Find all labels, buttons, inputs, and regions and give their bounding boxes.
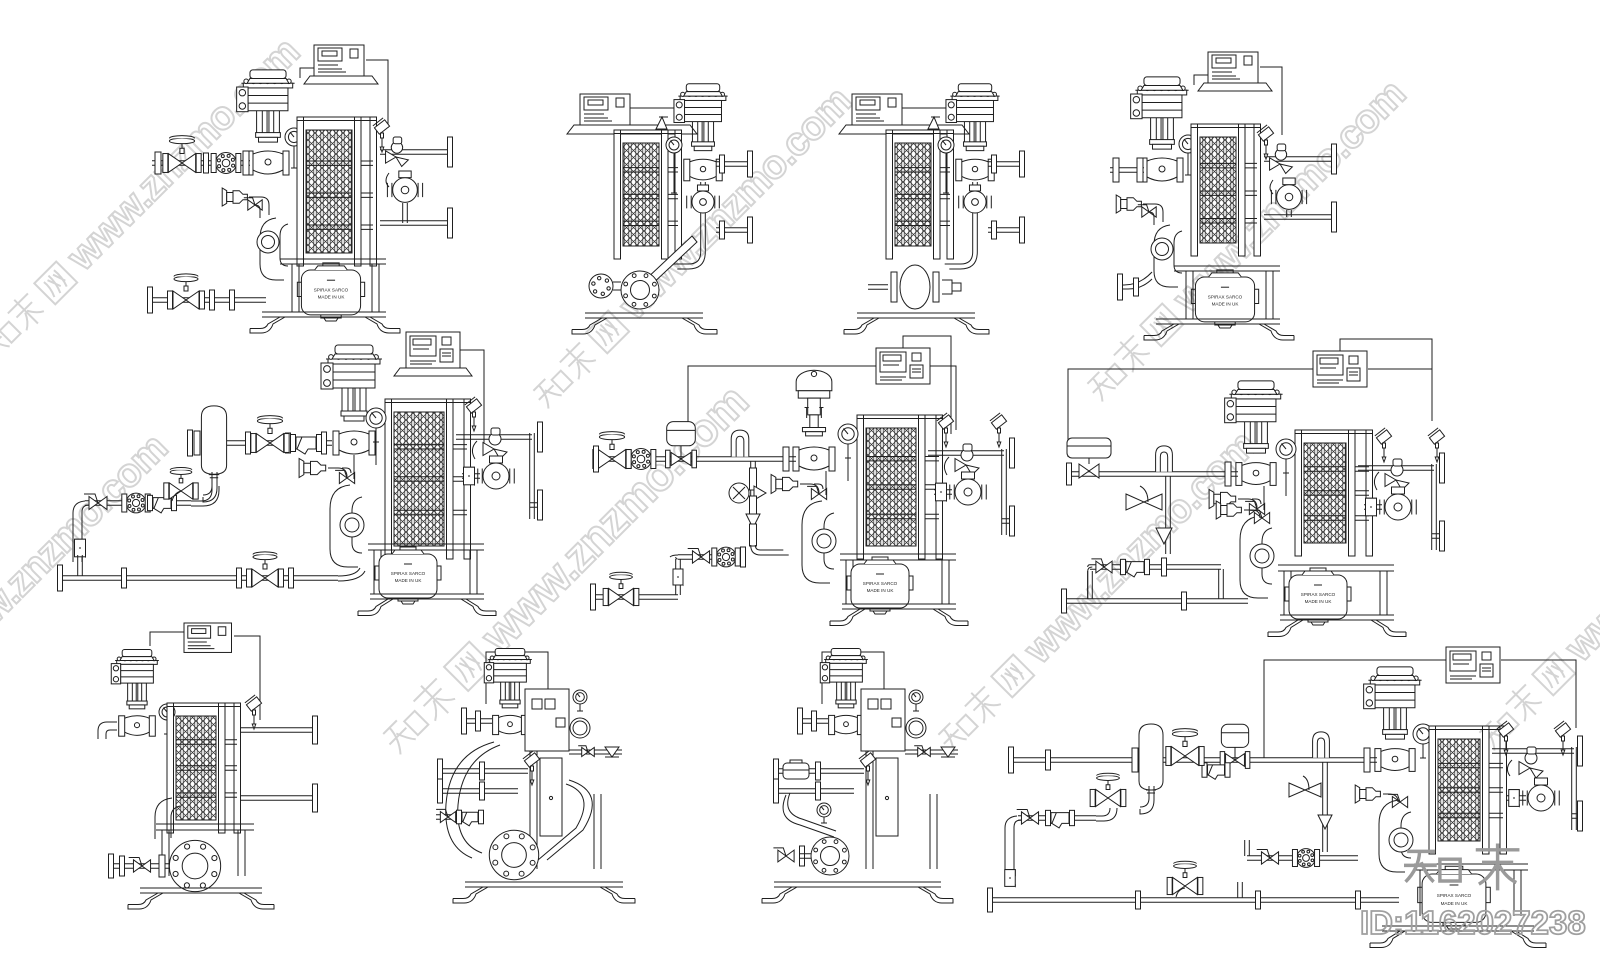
pressure gauge xyxy=(666,137,682,153)
pressure gauge xyxy=(159,704,175,720)
signal wire frame xyxy=(822,652,884,704)
branch strainer xyxy=(153,498,171,509)
flow orifice xyxy=(216,153,237,174)
plate heat exchanger xyxy=(895,143,931,246)
right riser pipe xyxy=(530,433,535,519)
base feet xyxy=(140,888,262,893)
bottom branch pipe xyxy=(1090,565,1221,570)
circulator pump xyxy=(955,479,981,505)
znzmo logo large xyxy=(1404,844,1519,891)
control panel xyxy=(876,348,930,384)
inlet pipe xyxy=(464,719,492,724)
plate heat exchanger xyxy=(623,143,659,246)
relief fittings right xyxy=(1355,785,1360,803)
motorized valve on main xyxy=(1226,754,1235,767)
main pipe run xyxy=(598,457,796,462)
control valve xyxy=(115,659,159,661)
circulation pump xyxy=(393,178,418,203)
gear pump xyxy=(169,840,220,891)
right upper pipe xyxy=(1492,749,1574,754)
signal wiring loop xyxy=(1264,660,1576,758)
upper outlet pipe xyxy=(380,150,450,155)
pump frame xyxy=(1414,864,1528,870)
right riser pipe xyxy=(1432,464,1437,550)
end-suction pump oval xyxy=(900,265,930,309)
main pipe run xyxy=(1011,758,1377,763)
base feet xyxy=(585,313,703,318)
control panel xyxy=(184,623,232,652)
temperature sensor A xyxy=(1497,721,1514,737)
sight ring xyxy=(1389,828,1413,852)
main pipe run xyxy=(1069,472,1238,477)
temperature sensor B xyxy=(1428,428,1445,444)
plate heat exchanger xyxy=(1200,137,1236,243)
condensate elbow xyxy=(155,798,180,839)
control valve xyxy=(488,658,532,660)
base plate xyxy=(262,312,386,317)
panel support bracket xyxy=(304,76,378,84)
control valve body xyxy=(962,159,989,180)
hot side elbow down xyxy=(1379,800,1411,872)
branch meter xyxy=(783,760,809,779)
base feet xyxy=(1144,324,1179,340)
branch pipes xyxy=(776,769,864,774)
bottom globe valve xyxy=(1173,877,1185,894)
watermark text www.znzmo.com xyxy=(1077,72,1413,408)
watermark text www.znzmo.com xyxy=(1469,421,1600,757)
signal wiring loop xyxy=(1068,339,1432,457)
base feet xyxy=(1382,926,1534,931)
panel wires xyxy=(150,632,260,720)
control valve xyxy=(824,658,868,660)
right stub pipes xyxy=(716,162,748,167)
sight ring xyxy=(812,529,836,553)
bottom return pipe xyxy=(150,298,266,303)
circulator pump xyxy=(1385,494,1411,520)
condensate pump xyxy=(301,270,360,315)
condensate pump xyxy=(1289,575,1347,619)
bottom globe valve xyxy=(173,291,186,309)
plate heat exchanger xyxy=(1304,443,1346,543)
temperature sensor A xyxy=(1375,428,1392,444)
control panel xyxy=(1446,647,1500,683)
control valve body xyxy=(1147,158,1177,181)
temperature sensor xyxy=(373,118,390,134)
angle balancing valve xyxy=(1385,474,1396,487)
control valve actuator xyxy=(1135,89,1188,91)
circulator pump xyxy=(964,191,986,213)
U expansion loop xyxy=(1156,446,1173,472)
svg-text:SPIRAX SARCO: SPIRAX SARCO xyxy=(863,581,898,586)
left drop pipe xyxy=(73,501,89,562)
control valve actuator xyxy=(241,82,294,84)
temperature sensor A xyxy=(465,397,482,413)
pressure gauge xyxy=(1276,439,1296,459)
condensate pump xyxy=(1195,277,1254,322)
control cabinet xyxy=(861,689,905,751)
pump suction fitting xyxy=(1364,505,1382,510)
side takeoff line xyxy=(905,750,958,754)
base feet xyxy=(370,594,484,599)
branch globe valve xyxy=(169,483,181,499)
right stub pipes xyxy=(988,162,1020,167)
svg-text:www.znzmo.com: www.znzmo.com xyxy=(470,375,757,662)
bottom riser xyxy=(1238,882,1243,898)
sight glass ring xyxy=(257,231,279,253)
branch ball valve xyxy=(84,494,107,510)
left branch pipe xyxy=(85,501,191,506)
pump frame beams xyxy=(1278,565,1394,571)
main pipe run xyxy=(203,441,332,446)
svg-text:MADE IN UK: MADE IN UK xyxy=(395,578,423,583)
control valve xyxy=(1229,393,1282,395)
signal wire xyxy=(630,88,706,108)
motorized control valve xyxy=(796,370,832,391)
separator drain elbow xyxy=(203,472,217,502)
base feet xyxy=(250,317,285,333)
inlet stub pipe xyxy=(1110,168,1144,173)
branch riser down xyxy=(676,559,681,595)
panel shelf xyxy=(839,125,969,134)
branch ball valve xyxy=(688,548,710,563)
base feet xyxy=(857,313,975,318)
control valve xyxy=(326,358,382,360)
sight ring xyxy=(340,513,364,537)
drop elbow to pump xyxy=(945,252,978,269)
svg-text:SPIRAX SARCO: SPIRAX SARCO xyxy=(314,287,349,292)
actuated ball valve xyxy=(671,452,681,465)
lower outlet pipe xyxy=(240,796,315,801)
main pipe left end xyxy=(1009,747,1014,773)
gear pump xyxy=(489,830,538,879)
sight ring xyxy=(1250,544,1274,568)
left actuated valve xyxy=(1067,438,1111,478)
signal wire to sensor xyxy=(1260,67,1282,135)
svg-text:SPIRAX SARCO: SPIRAX SARCO xyxy=(391,571,426,576)
lower outlet pipe xyxy=(380,221,450,226)
angle balancing valve xyxy=(483,443,494,456)
temperature sensor xyxy=(1257,125,1274,141)
bottom globe valve xyxy=(252,569,265,587)
control valve xyxy=(950,95,999,97)
circulator pump xyxy=(483,463,509,489)
second row pipe xyxy=(1247,856,1358,861)
main strainer xyxy=(1208,765,1225,775)
watermark text www.znzmo.com xyxy=(370,375,757,762)
air separator xyxy=(1139,724,1163,790)
main globe valve xyxy=(598,450,612,469)
pump frame xyxy=(1174,266,1280,271)
gear pump xyxy=(621,271,659,309)
temperature sensor B xyxy=(990,413,1007,429)
mid vertical pipe xyxy=(1323,762,1328,852)
control panel xyxy=(314,45,364,76)
frame beam xyxy=(156,824,254,830)
control cabinet xyxy=(525,689,569,751)
plate heat exchanger xyxy=(866,428,916,546)
gear pump xyxy=(811,837,849,875)
inlet pipe xyxy=(800,719,828,724)
lower hose xyxy=(783,793,836,837)
base xyxy=(774,882,941,887)
condensate drop elbow xyxy=(260,218,288,280)
svg-text:SPIRAX SARCO: SPIRAX SARCO xyxy=(1301,592,1336,597)
branch riser left xyxy=(1088,571,1093,599)
svg-text:www.znzmo.com: www.znzmo.com xyxy=(0,426,176,675)
watermark text www.znzmo.com xyxy=(0,426,176,762)
pressure gauge xyxy=(285,128,303,146)
mid elbow to pump zone xyxy=(751,545,789,555)
pump inlet flange wheel xyxy=(589,274,613,298)
pipe sweep to pump xyxy=(338,568,365,581)
U expansion loop xyxy=(731,430,749,457)
signal wire frame xyxy=(486,652,548,704)
svg-text:ID:1162027238: ID:1162027238 xyxy=(1360,904,1586,941)
svg-text:www.znzmo.com: www.znzmo.com xyxy=(1556,421,1600,670)
mid vertical pipe xyxy=(1166,476,1171,554)
svg-text:MADE IN UK: MADE IN UK xyxy=(867,588,895,593)
svg-text:MADE IN UK: MADE IN UK xyxy=(318,295,346,300)
control valve body xyxy=(253,151,283,174)
pump suction fitting xyxy=(462,474,480,479)
bottom outlet elbow xyxy=(1122,272,1152,289)
signal wire to sensor xyxy=(366,60,388,128)
mid check valve cluster xyxy=(750,468,757,490)
diagonal brace xyxy=(644,236,697,287)
signal wire to valve positioner xyxy=(300,68,314,78)
mid vertical pipe xyxy=(751,461,756,545)
blowdown fitting xyxy=(299,459,304,478)
control panel xyxy=(1313,351,1367,387)
blowdown valve cluster xyxy=(1116,195,1121,213)
base plate xyxy=(1156,319,1280,324)
plate heat exchanger xyxy=(176,716,216,820)
pump suction fitting xyxy=(934,490,952,495)
side takeoff line xyxy=(569,750,622,754)
hot side elbow down xyxy=(330,485,362,567)
angle balancing valve xyxy=(955,459,966,472)
blowdown valve cluster xyxy=(222,188,227,206)
signal wire to valve positioner xyxy=(1194,75,1208,85)
pump frame xyxy=(280,259,386,264)
right riser pipe xyxy=(1002,449,1007,535)
pump frame beams xyxy=(368,544,484,550)
condensate pump xyxy=(1422,874,1486,922)
flex hose right xyxy=(538,780,592,860)
left cluster pipe xyxy=(1018,816,1096,821)
right riser xyxy=(1572,747,1577,830)
relief valve pair xyxy=(1216,501,1221,519)
circulation pump xyxy=(1277,185,1302,210)
control valve body xyxy=(690,159,717,180)
stand columns xyxy=(866,751,937,869)
watermark text www.znzmo.com xyxy=(928,423,1264,759)
mid angle fitting xyxy=(1156,528,1172,544)
bottom long pipe xyxy=(60,576,338,581)
panel bracket xyxy=(394,368,472,376)
separator drain xyxy=(1140,786,1154,814)
watermark text www.znzmo.com xyxy=(523,79,859,415)
pipe sensor xyxy=(245,695,262,711)
blowdown fitting xyxy=(1209,490,1214,509)
svg-text:MADE IN UK: MADE IN UK xyxy=(1212,302,1240,307)
temperature sensor B xyxy=(1554,721,1571,737)
stand columns xyxy=(530,751,601,869)
main globe valve xyxy=(1171,747,1185,766)
pump inlet valve xyxy=(773,848,794,862)
watermark text www.znzmo.com xyxy=(0,30,308,366)
lower cluster xyxy=(436,815,474,820)
signal wire xyxy=(902,88,978,108)
U expansion loop xyxy=(1313,732,1330,758)
signal wiring loop xyxy=(688,336,956,434)
second row riser xyxy=(1245,840,1250,856)
control panel xyxy=(1208,52,1258,83)
strainer on main xyxy=(296,437,316,449)
branch orifice xyxy=(716,547,736,567)
svg-text:www.znzmo.com: www.znzmo.com xyxy=(1015,423,1264,672)
main globe valve xyxy=(256,434,270,453)
bottom globe valve xyxy=(609,588,621,605)
pressure gauge xyxy=(938,137,954,153)
inlet hopper xyxy=(928,117,939,129)
inlet globe valve xyxy=(168,154,182,173)
circulator pump xyxy=(692,191,714,213)
base feet xyxy=(1280,615,1394,620)
mid valve on vertical xyxy=(1289,776,1321,797)
condensate drop elbow xyxy=(1154,225,1182,287)
pressure gauge xyxy=(1179,135,1197,153)
control valve xyxy=(678,95,727,97)
branch elbow to separator xyxy=(191,482,219,506)
pump suction piping xyxy=(112,864,170,869)
air separator xyxy=(201,406,226,474)
valve drop pipe xyxy=(973,182,978,252)
panel support bracket xyxy=(1198,83,1272,91)
upper outlet pipe xyxy=(1264,157,1334,162)
mid check valve xyxy=(1126,486,1162,510)
control panel xyxy=(580,94,630,125)
bottom long pipe xyxy=(1064,599,1248,604)
panel shelf xyxy=(567,125,697,134)
condensate pump xyxy=(379,554,437,598)
tower sensor xyxy=(859,751,876,767)
right circulator pump xyxy=(1528,785,1554,811)
lower outlet pipe xyxy=(1264,215,1334,220)
svg-text:SPIRAX SARCO: SPIRAX SARCO xyxy=(1437,893,1472,898)
control valve xyxy=(1368,679,1421,681)
valve inlet elbow xyxy=(98,722,117,739)
panel wires xyxy=(433,350,484,450)
main orifice meter xyxy=(631,449,652,470)
branch orifice xyxy=(126,493,146,513)
hot side elbow down xyxy=(1240,516,1272,598)
branch left elbow down xyxy=(1088,565,1093,599)
base xyxy=(465,882,623,887)
drop elbow to pump xyxy=(673,252,706,269)
bottom pipe drop connection xyxy=(78,555,83,576)
bottom long pipe xyxy=(990,898,1399,903)
inlet hopper xyxy=(656,117,667,129)
right angle valve xyxy=(1519,762,1530,775)
right upper pipe xyxy=(1358,466,1434,471)
flex hose left xyxy=(446,742,500,858)
right upper pipe xyxy=(928,451,1004,456)
base feet xyxy=(842,604,956,609)
hot side elbow down xyxy=(802,501,834,583)
bottom short pipe xyxy=(593,595,678,600)
tower sensor xyxy=(523,751,540,767)
pressure gauge xyxy=(366,408,386,428)
svg-text:MADE IN UK: MADE IN UK xyxy=(1305,599,1333,604)
plate heat exchanger xyxy=(1438,739,1480,841)
right upper pipe xyxy=(456,435,532,440)
left elbow down xyxy=(1005,816,1021,871)
balancing valve xyxy=(1270,158,1280,170)
inlet pipe xyxy=(152,161,250,166)
hose gauge xyxy=(817,803,831,817)
cabinet gauge xyxy=(573,690,587,704)
pressure gauge xyxy=(838,424,858,444)
left mid globe valve xyxy=(1096,789,1108,806)
control panel xyxy=(406,332,460,368)
pump frame beams xyxy=(840,554,956,560)
pressure gauge xyxy=(1413,724,1433,744)
valve drop pipe xyxy=(701,182,706,252)
plate heat exchanger xyxy=(394,412,444,546)
cabinet sight ring xyxy=(906,718,926,738)
upper outlet pipe xyxy=(240,728,315,733)
branch pipes xyxy=(440,769,528,774)
plate heat exchanger xyxy=(306,130,352,253)
sight glass ring xyxy=(1151,238,1173,260)
balancing valve xyxy=(386,151,396,163)
svg-text:SPIRAX SARCO: SPIRAX SARCO xyxy=(1208,294,1243,299)
cabinet gauge xyxy=(909,690,923,704)
bottom drop leg right xyxy=(1219,569,1224,599)
temperature sensor A xyxy=(937,413,954,429)
bottom-left branch pipe xyxy=(678,555,745,560)
cabinet sight ring xyxy=(570,718,590,738)
mid lower fitting xyxy=(1318,815,1332,829)
condensate pump xyxy=(851,564,909,608)
control panel xyxy=(852,94,902,125)
blowdown fitting xyxy=(771,475,776,494)
